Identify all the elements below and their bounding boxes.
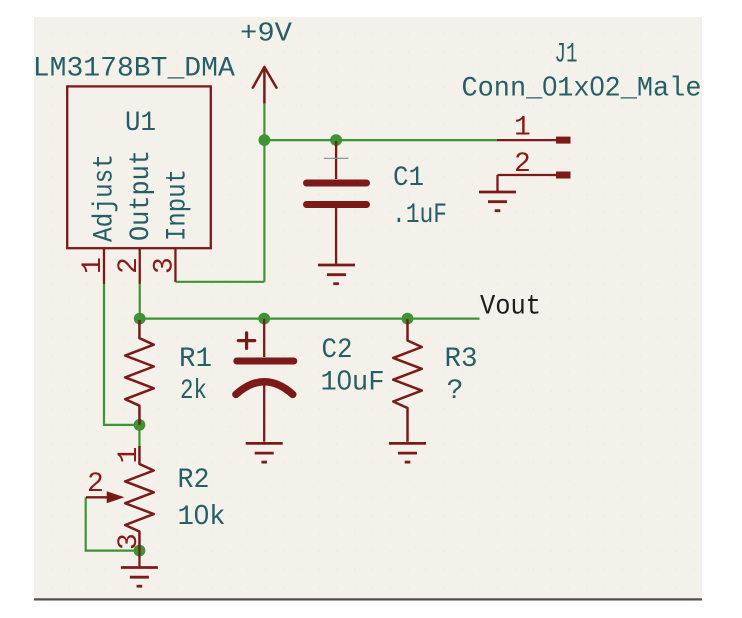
wire pin1 J1 rail — [264, 139, 497, 141]
ground J1 — [479, 175, 516, 211]
junction node Vout at R1 — [134, 313, 146, 325]
svg-text:10uF: 10uF — [321, 365, 385, 399]
pin 2 of U1 — [139, 248, 141, 284]
ground C1 — [318, 265, 355, 284]
capacitor C1 — [307, 141, 367, 264]
pin 1 of U1 — [103, 248, 105, 284]
polarity plus C2 — [238, 333, 254, 349]
wire input pin3 horizontal — [175, 281, 264, 283]
svg-text:10k: 10k — [178, 499, 226, 533]
svg-text:1: 1 — [114, 447, 145, 464]
capacitor C2 — [236, 319, 294, 442]
wiper arrow R2 — [86, 496, 108, 498]
svg-text:R2: R2 — [178, 465, 210, 496]
svg-text:3: 3 — [114, 533, 145, 550]
svg-text:3: 3 — [150, 257, 181, 274]
junction node +9V rail — [259, 134, 271, 146]
svg-text:R3: R3 — [445, 344, 478, 375]
pin 2 of J1 — [498, 174, 557, 176]
svg-text:Output: Output — [126, 150, 157, 241]
svg-text:R1: R1 — [179, 344, 212, 375]
regulator U1 body — [67, 86, 211, 248]
svg-text:+9V: +9V — [240, 19, 293, 49]
svg-text:Vout: Vout — [480, 292, 541, 323]
svg-text:2k: 2k — [180, 376, 207, 407]
wire R1 bottom to R2 top — [138, 425, 140, 447]
junction node Vout at C2 — [258, 313, 270, 325]
wire adjust pin1 down to R1 bottom — [104, 283, 139, 425]
svg-text:Adjust: Adjust — [90, 154, 121, 242]
junction node C1 top — [330, 134, 342, 146]
wire output pin2 down — [139, 283, 141, 318]
hidden pin marker C1 — [324, 157, 349, 159]
pin 1 of J1 — [497, 139, 556, 141]
svg-text:Conn_01x02_Male: Conn_01x02_Male — [462, 71, 702, 105]
svg-text:C1: C1 — [393, 163, 424, 194]
svg-text:?: ? — [447, 376, 464, 407]
junction node R1-R2 — [134, 419, 146, 431]
ground R3 — [389, 443, 426, 462]
ground R2 — [121, 551, 158, 587]
wire Vout rail — [139, 318, 479, 320]
potentiometer R2 — [125, 446, 154, 551]
resistor R1 — [125, 320, 154, 425]
svg-text:Input: Input — [163, 169, 194, 241]
pin 3 of U1 — [174, 248, 176, 282]
svg-text:2: 2 — [514, 149, 531, 180]
junction node Vout at R3 — [402, 313, 414, 325]
ground C2 — [246, 443, 283, 462]
power symbol +9V — [253, 67, 277, 103]
junction node R2 bottom — [134, 545, 146, 557]
svg-text:J1: J1 — [555, 40, 578, 71]
svg-text:2: 2 — [114, 257, 145, 274]
wire +9V vertical — [263, 103, 265, 281]
svg-text:U1: U1 — [125, 108, 156, 139]
svg-text:.1uF: .1uF — [392, 200, 447, 231]
svg-text:C2: C2 — [322, 335, 353, 366]
resistor R3 — [393, 319, 422, 442]
wire R2 wiper to bottom — [86, 497, 140, 550]
svg-text:1: 1 — [78, 257, 109, 274]
svg-text:LM3178BT_DMA: LM3178BT_DMA — [33, 54, 235, 85]
svg-text:1: 1 — [514, 112, 531, 143]
svg-text:2: 2 — [87, 469, 104, 500]
